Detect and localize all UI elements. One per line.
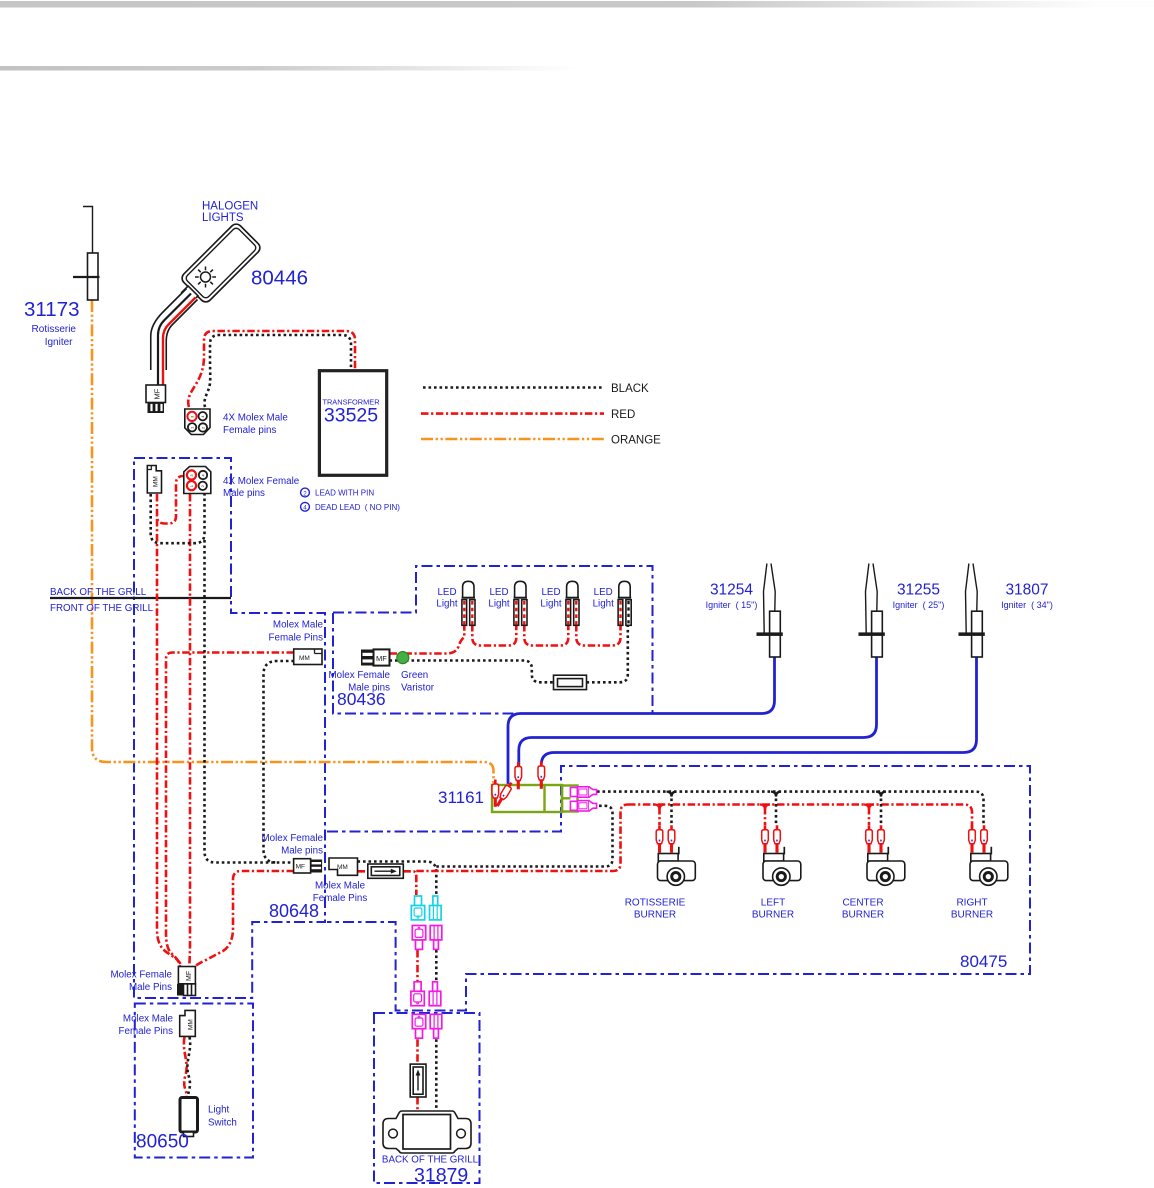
- wire: blue igniter 31807 to 31161: [541, 657, 976, 765]
- wire: black MM(860s) right to junction then down chain: [358, 862, 437, 896]
- wire: 80650 twisted pair red: [184, 1037, 187, 1098]
- wire: red from MF(860s) left then down to MF connector: [194, 871, 295, 969]
- 80436: wire red MF to LED1: [390, 624, 465, 654]
- svg-text:MF: MF: [296, 864, 305, 871]
- igniter 31254: [757, 564, 783, 658]
- svg-text:ORANGE: ORANGE: [611, 435, 661, 447]
- wire: blue igniter 31255 to 31161: [519, 657, 877, 766]
- LED light D4: [618, 581, 631, 625]
- svg-text:4X Molex Male: 4X Molex Male: [223, 413, 288, 424]
- svg-text:MM: MM: [337, 864, 348, 871]
- svg-text:Igniter: Igniter: [45, 337, 73, 348]
- svg-text:2: 2: [303, 490, 307, 497]
- svg-text:ROTISSERIE: ROTISSERIE: [625, 898, 686, 909]
- svg-text:31807: 31807: [1005, 582, 1048, 599]
- svg-text:Molex Male: Molex Male: [123, 1014, 174, 1025]
- wire: black halogen pair to transformer: [204, 335, 351, 407]
- wire: red link LED3 to LED4: [576, 624, 620, 646]
- svg-text:BACK OF THE GRILL: BACK OF THE GRILL: [50, 587, 147, 598]
- svg-text:Igniter ( 25"): Igniter ( 25"): [893, 600, 945, 610]
- disconnect chain: cyan terminals: [411, 896, 441, 920]
- burner LEFT BURNER: [762, 825, 801, 885]
- wire: red MM to fuse stub: [358, 870, 368, 873]
- svg-text:MM: MM: [153, 476, 160, 487]
- wire: 80650 twisted pair black: [187, 1037, 190, 1098]
- svg-text:LEFT: LEFT: [761, 898, 785, 909]
- green varistor: [397, 652, 409, 664]
- MF connector (mid pair): [294, 859, 323, 873]
- MM connector (mid pair): [329, 858, 358, 875]
- fuse (vertical, 31879): [410, 1064, 426, 1097]
- svg-text:MM: MM: [188, 1019, 195, 1030]
- wire: black vertical x204 down then right to MF: [205, 540, 295, 863]
- wire: black chain segments between disconnects: [435, 950, 438, 981]
- svg-text:BURNER: BURNER: [842, 910, 884, 921]
- svg-text:80446: 80446: [251, 267, 308, 290]
- svg-text:Molex Female: Molex Female: [328, 670, 390, 681]
- wire: solid black halogen: [158, 294, 191, 387]
- legend orange sample line: [421, 438, 606, 441]
- svg-text:RED: RED: [611, 409, 635, 421]
- svg-text:HALOGEN: HALOGEN: [202, 201, 258, 213]
- harness box 31879: [374, 1013, 480, 1183]
- wire: black burner drops: [670, 793, 673, 825]
- svg-text:Molex Male: Molex Male: [315, 881, 366, 892]
- wire: black from top MM down x263 joining horizontal: [264, 661, 295, 863]
- wire: red vertical x190 from 4X female down to MF: [189, 494, 190, 968]
- svg-text:31161: 31161: [438, 788, 484, 807]
- svg-text:Light: Light: [540, 599, 562, 610]
- wire: red fuse to junction, down chain: [403, 871, 416, 895]
- LED light D3: [566, 581, 579, 625]
- svg-text:80650: 80650: [136, 1132, 189, 1153]
- svg-text:33525: 33525: [324, 405, 378, 427]
- burner RIGHT BURNER: [969, 825, 1008, 885]
- junction fillets on black bus: [667, 792, 887, 797]
- svg-text:RIGHT: RIGHT: [956, 898, 987, 909]
- 31161 spark module green box: [492, 785, 578, 812]
- wire: red vertical x157 down to MF: [157, 519, 182, 968]
- wire: black U from MM to 4X female connector: [151, 494, 205, 543]
- svg-text:Female Pins: Female Pins: [313, 893, 368, 904]
- svg-text:LEAD WITH PIN: LEAD WITH PIN: [315, 489, 374, 498]
- svg-text:Female Pins: Female Pins: [269, 633, 324, 644]
- svg-text:MF: MF: [376, 654, 387, 663]
- junction fillets on red bus: [655, 805, 875, 810]
- 80436: resistor: [554, 675, 587, 689]
- LED light D1: [462, 581, 475, 625]
- 4X Molex male connector: [185, 409, 210, 435]
- MF connector (box A bottom): [177, 967, 196, 996]
- wire: red from top MM connector down x166 to MF: [166, 653, 294, 969]
- svg-text:Switch: Switch: [208, 1118, 237, 1129]
- halogen lamp sun icon: [191, 262, 221, 292]
- 31161 red spade terminals: [515, 762, 522, 789]
- circled note 4: dead lead no pin: [301, 502, 401, 512]
- svg-text:LED: LED: [489, 587, 508, 598]
- second gradient bar: [0, 66, 576, 71]
- svg-text:FRONT OF THE GRILL: FRONT OF THE GRILL: [50, 603, 154, 614]
- MM connector (mid, molex male female pins): [294, 649, 322, 665]
- svg-text:Male Pins: Male Pins: [129, 982, 172, 993]
- fuse holder (horizontal, near 80648): [368, 864, 404, 878]
- MM connector (80650): [180, 1010, 196, 1036]
- MM connector (top left): [147, 466, 161, 494]
- 80436: Molex MF connector: [361, 649, 390, 665]
- wire: orange rotisserie igniter lead 31173 to 31161: [92, 300, 494, 783]
- svg-text:MM: MM: [299, 655, 310, 662]
- svg-text:LIGHTS: LIGHTS: [202, 212, 244, 224]
- 80436: wire black MF to resistor to LED4: [390, 626, 628, 682]
- halogen MF connector: [146, 385, 166, 413]
- wire: red burner drops: [658, 807, 661, 825]
- igniter 31807: [959, 564, 985, 658]
- wire: red junction right then up to red burner bus: [416, 805, 628, 872]
- legend black sample line: [423, 386, 602, 389]
- wire: red burner bus: [628, 805, 972, 829]
- svg-text:80648: 80648: [269, 901, 319, 921]
- svg-text:BURNER: BURNER: [951, 910, 993, 921]
- wire: red chain segments between disconnects: [416, 950, 419, 981]
- svg-text:LED: LED: [594, 587, 613, 598]
- transformer 33525: [319, 371, 386, 476]
- svg-text:Light: Light: [436, 599, 458, 610]
- svg-text:LED: LED: [437, 587, 456, 598]
- svg-text:31879: 31879: [414, 1165, 468, 1187]
- svg-text:Molex Female: Molex Female: [261, 833, 323, 844]
- wire: red link LED2 to LED3: [524, 624, 568, 646]
- halogen wire tube: [151, 289, 198, 371]
- 31161 magenta output terminals: [570, 787, 596, 811]
- svg-text:MF: MF: [186, 971, 193, 981]
- svg-text:31254: 31254: [710, 582, 753, 599]
- svg-text:Male pins: Male pins: [281, 846, 323, 857]
- burner CENTER BURNER: [866, 825, 905, 885]
- wire: solid red halogen: [163, 298, 196, 387]
- svg-text:LED: LED: [541, 587, 560, 598]
- harness box 80650: [135, 1004, 253, 1158]
- wire: red U from MM to 4X female connector: [157, 476, 185, 524]
- harness box 80648 / 80475 boundary: [327, 766, 1030, 1011]
- svg-text:Varistor: Varistor: [401, 683, 435, 694]
- svg-text:Green: Green: [401, 670, 428, 681]
- svg-text:Light: Light: [593, 599, 615, 610]
- 4X Molex female connector: [184, 467, 211, 494]
- svg-text:Male pins: Male pins: [223, 488, 265, 499]
- svg-text:MF: MF: [153, 388, 162, 399]
- svg-text:Igniter ( 15"): Igniter ( 15"): [706, 600, 758, 610]
- svg-text:4X Molex Female: 4X Molex Female: [223, 476, 300, 487]
- divider line back/front of grill: [50, 597, 231, 599]
- igniter 31255: [859, 564, 885, 658]
- wire: red halogen pair to transformer: [188, 331, 355, 407]
- wire: black junction right then up to 31161 lower magenta terminal: [436, 806, 612, 867]
- 31879 panel-mount connector (back of the grill): [383, 1111, 471, 1153]
- svg-text:Rotisserie: Rotisserie: [32, 324, 77, 335]
- rotisserie igniter 31173 symbol: [73, 207, 100, 301]
- LED light D2: [514, 581, 527, 625]
- circled note 2: lead with pin: [301, 488, 375, 498]
- wire: red link LED1 to LED2: [472, 624, 516, 646]
- svg-text:Female Pins: Female Pins: [119, 1026, 174, 1037]
- wire: blue igniter 31254 to 31161: [508, 657, 775, 784]
- svg-text:80436: 80436: [337, 689, 386, 709]
- harness box A (Molex connector group, left tall box): [134, 458, 325, 998]
- burner ROTISSERIE BURNER: [656, 825, 695, 885]
- svg-text:Light: Light: [208, 1105, 230, 1116]
- svg-text:Igniter ( 34"): Igniter ( 34"): [1001, 600, 1053, 610]
- svg-text:BURNER: BURNER: [752, 910, 794, 921]
- legend red sample line: [421, 412, 604, 415]
- svg-text:31173: 31173: [24, 298, 79, 321]
- svg-text:BLACK: BLACK: [611, 383, 649, 395]
- top gradient bar: [0, 1, 1154, 8]
- svg-text:BURNER: BURNER: [634, 910, 676, 921]
- svg-text:CENTER: CENTER: [842, 898, 883, 909]
- svg-text:Molex Male: Molex Male: [273, 620, 324, 631]
- svg-text:4: 4: [303, 505, 307, 512]
- svg-text:DEAD LEAD ( NO PIN): DEAD LEAD ( NO PIN): [315, 503, 400, 512]
- svg-text:31255: 31255: [897, 582, 940, 599]
- svg-text:Female pins: Female pins: [223, 425, 276, 436]
- halogen lamp 80446: [174, 222, 263, 311]
- disconnect chain: magenta terminals: [411, 926, 442, 1039]
- svg-text:Molex Female: Molex Female: [110, 970, 172, 981]
- harness box 80436: [333, 566, 653, 714]
- wire: black burner bus from 31161 upper magenta terminal: [597, 792, 984, 825]
- light switch (80650): [180, 1098, 198, 1137]
- svg-text:80475: 80475: [960, 952, 1007, 971]
- svg-text:Light: Light: [488, 599, 510, 610]
